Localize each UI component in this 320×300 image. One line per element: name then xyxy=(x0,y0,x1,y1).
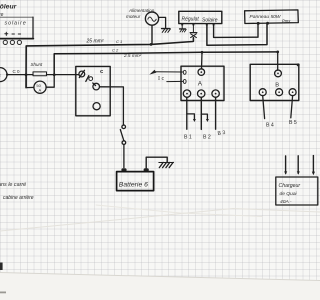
contactor contact 1 xyxy=(79,70,85,77)
svg-text:B 5: B 5 xyxy=(289,120,297,126)
svg-text:I c: I c xyxy=(158,76,164,82)
box A bottom terminal 3 xyxy=(212,90,219,97)
box A left terminal 1 xyxy=(183,70,186,74)
quay charger box xyxy=(276,177,318,205)
contactor contact 2 xyxy=(93,83,100,90)
controller terminals (3 circles) xyxy=(3,40,21,44)
svg-text:Shunt: Shunt xyxy=(31,62,44,67)
battery positive bump xyxy=(121,168,126,171)
charger label xyxy=(279,183,301,205)
paper crease lines xyxy=(0,209,320,232)
wire Ic sense 1 xyxy=(154,71,184,73)
svg-text:A: A xyxy=(39,88,42,93)
box A bottom terminal 1 xyxy=(183,90,190,97)
fuse box A xyxy=(181,66,224,100)
regulator terminal T4 wire to panel xyxy=(213,23,258,37)
svg-text:Alimentation: Alimentation xyxy=(128,8,155,13)
box B corner dot xyxy=(297,63,300,66)
box B top terminal xyxy=(275,70,282,77)
regulator terminal T2 + fuse symbol to bus1 xyxy=(190,23,197,37)
box B bottom terminal 1 xyxy=(259,89,266,96)
svg-text:c: c xyxy=(0,73,2,78)
ammeter left branch wire xyxy=(26,75,34,88)
battery box xyxy=(117,172,154,191)
arrow Ic xyxy=(149,70,156,75)
panel terminal dot 1 xyxy=(257,22,260,25)
junction alternator/bus1 xyxy=(150,43,153,46)
svg-text:re: re xyxy=(0,12,4,18)
wire C0 to shunt xyxy=(7,74,33,76)
svg-text:A: A xyxy=(198,81,203,88)
battery negative bump xyxy=(144,168,149,171)
contactor small pivot circle xyxy=(89,77,93,81)
wire battery to ground xyxy=(146,157,167,168)
wire B1 xyxy=(186,97,188,129)
label alimentation moteur xyxy=(126,8,155,19)
junction bus2/box B xyxy=(276,51,279,54)
panel terminal dot 2 xyxy=(266,22,269,25)
regulator label xyxy=(182,17,218,24)
alternator ground branch xyxy=(159,17,171,32)
alternator circle xyxy=(145,12,158,44)
svg-text:de Quai: de Quai xyxy=(280,191,298,197)
regulator terminal T1 + ground xyxy=(180,23,187,32)
wire key switch to battery xyxy=(123,145,125,168)
box B bottom terminal 2 xyxy=(276,89,283,96)
controller +/- marks xyxy=(5,32,21,35)
svg-text:Batterie 6: Batterie 6 xyxy=(119,182,148,189)
wire shunt to contactor xyxy=(47,74,79,76)
svg-text:Régulat: Régulat xyxy=(182,17,200,23)
wire bus2 down to box B xyxy=(277,52,279,70)
contactor blade xyxy=(86,76,89,82)
svg-text:B 2: B 2 xyxy=(203,135,211,141)
svg-text:Chargeur: Chargeur xyxy=(279,183,301,189)
wire B2 xyxy=(200,97,202,129)
wire B1 branch arrow xyxy=(187,114,195,120)
contactor box C xyxy=(76,66,110,115)
contactor coil circle xyxy=(93,103,100,110)
svg-text:40A -: 40A - xyxy=(280,199,292,205)
svg-text:cabine arrière: cabine arrière xyxy=(3,195,34,201)
svg-text:moteur: moteur xyxy=(126,14,141,19)
panel label xyxy=(250,14,292,23)
svg-text:Pmx: Pmx xyxy=(282,18,291,23)
charger wire 1 xyxy=(285,156,287,173)
battery ground xyxy=(159,162,174,167)
svg-text:rôleur: rôleur xyxy=(0,4,17,11)
input terminal C0 circle xyxy=(0,68,8,82)
svg-text:B 4: B 4 xyxy=(266,123,274,129)
junction shunt left xyxy=(25,73,28,76)
shunt resistor xyxy=(33,72,47,76)
svg-text:B: B xyxy=(275,83,279,89)
svg-text:2.5 mm²: 2.5 mm² xyxy=(123,53,142,58)
junction shunt right xyxy=(53,73,56,76)
svg-text:C 2: C 2 xyxy=(112,48,119,53)
wire B5 xyxy=(291,96,293,118)
box A bottom terminal 2 xyxy=(198,90,205,97)
fuse box B xyxy=(250,64,299,100)
wire bus1 25mm2 xyxy=(26,38,193,88)
ammeter right branch wire xyxy=(46,75,54,87)
regulator terminal T3 wire to panel xyxy=(206,23,267,45)
wire bus2 down to box A xyxy=(201,52,204,69)
controller box (top-left, régulateur solaire) xyxy=(0,17,33,38)
wire Ic sense 2 xyxy=(167,80,183,82)
page bottom edge (no grid zone) xyxy=(0,273,320,300)
svg-text:Panneau 50W: Panneau 50W xyxy=(250,14,281,20)
wire B4 xyxy=(263,96,265,119)
wire B2 branch arrow xyxy=(201,114,207,120)
svg-text:solaire: solaire xyxy=(5,21,27,27)
svg-text:B 1: B 1 xyxy=(184,135,192,141)
wire B3 xyxy=(215,97,217,129)
junction bus2/box A xyxy=(201,51,204,54)
box B bottom terminal 3 xyxy=(289,89,296,96)
key switch xyxy=(120,125,125,144)
charger wire 2 xyxy=(297,156,299,174)
svg-text:ans le carré: ans le carré xyxy=(0,182,26,188)
svg-text:C 0: C 0 xyxy=(13,69,21,74)
charger wire 3 with arrow xyxy=(312,156,314,174)
svg-text:B 3: B 3 xyxy=(217,130,226,137)
svg-text:C 1: C 1 xyxy=(116,39,122,44)
regulator box xyxy=(179,11,222,23)
solar panel box xyxy=(245,10,299,24)
svg-text:25 mm²: 25 mm² xyxy=(86,39,104,45)
wire bus2 2.5mm2 xyxy=(54,52,278,75)
svg-text:Solaire: Solaire xyxy=(202,17,218,23)
svg-text:c: c xyxy=(100,69,104,75)
box A top terminal xyxy=(198,69,205,76)
wire contactor to key switch xyxy=(100,87,124,125)
scan artifact left edge xyxy=(0,263,3,271)
box A left terminal 2 xyxy=(183,79,186,83)
controller title text xyxy=(0,4,27,27)
ammeter 50A xyxy=(34,81,46,93)
